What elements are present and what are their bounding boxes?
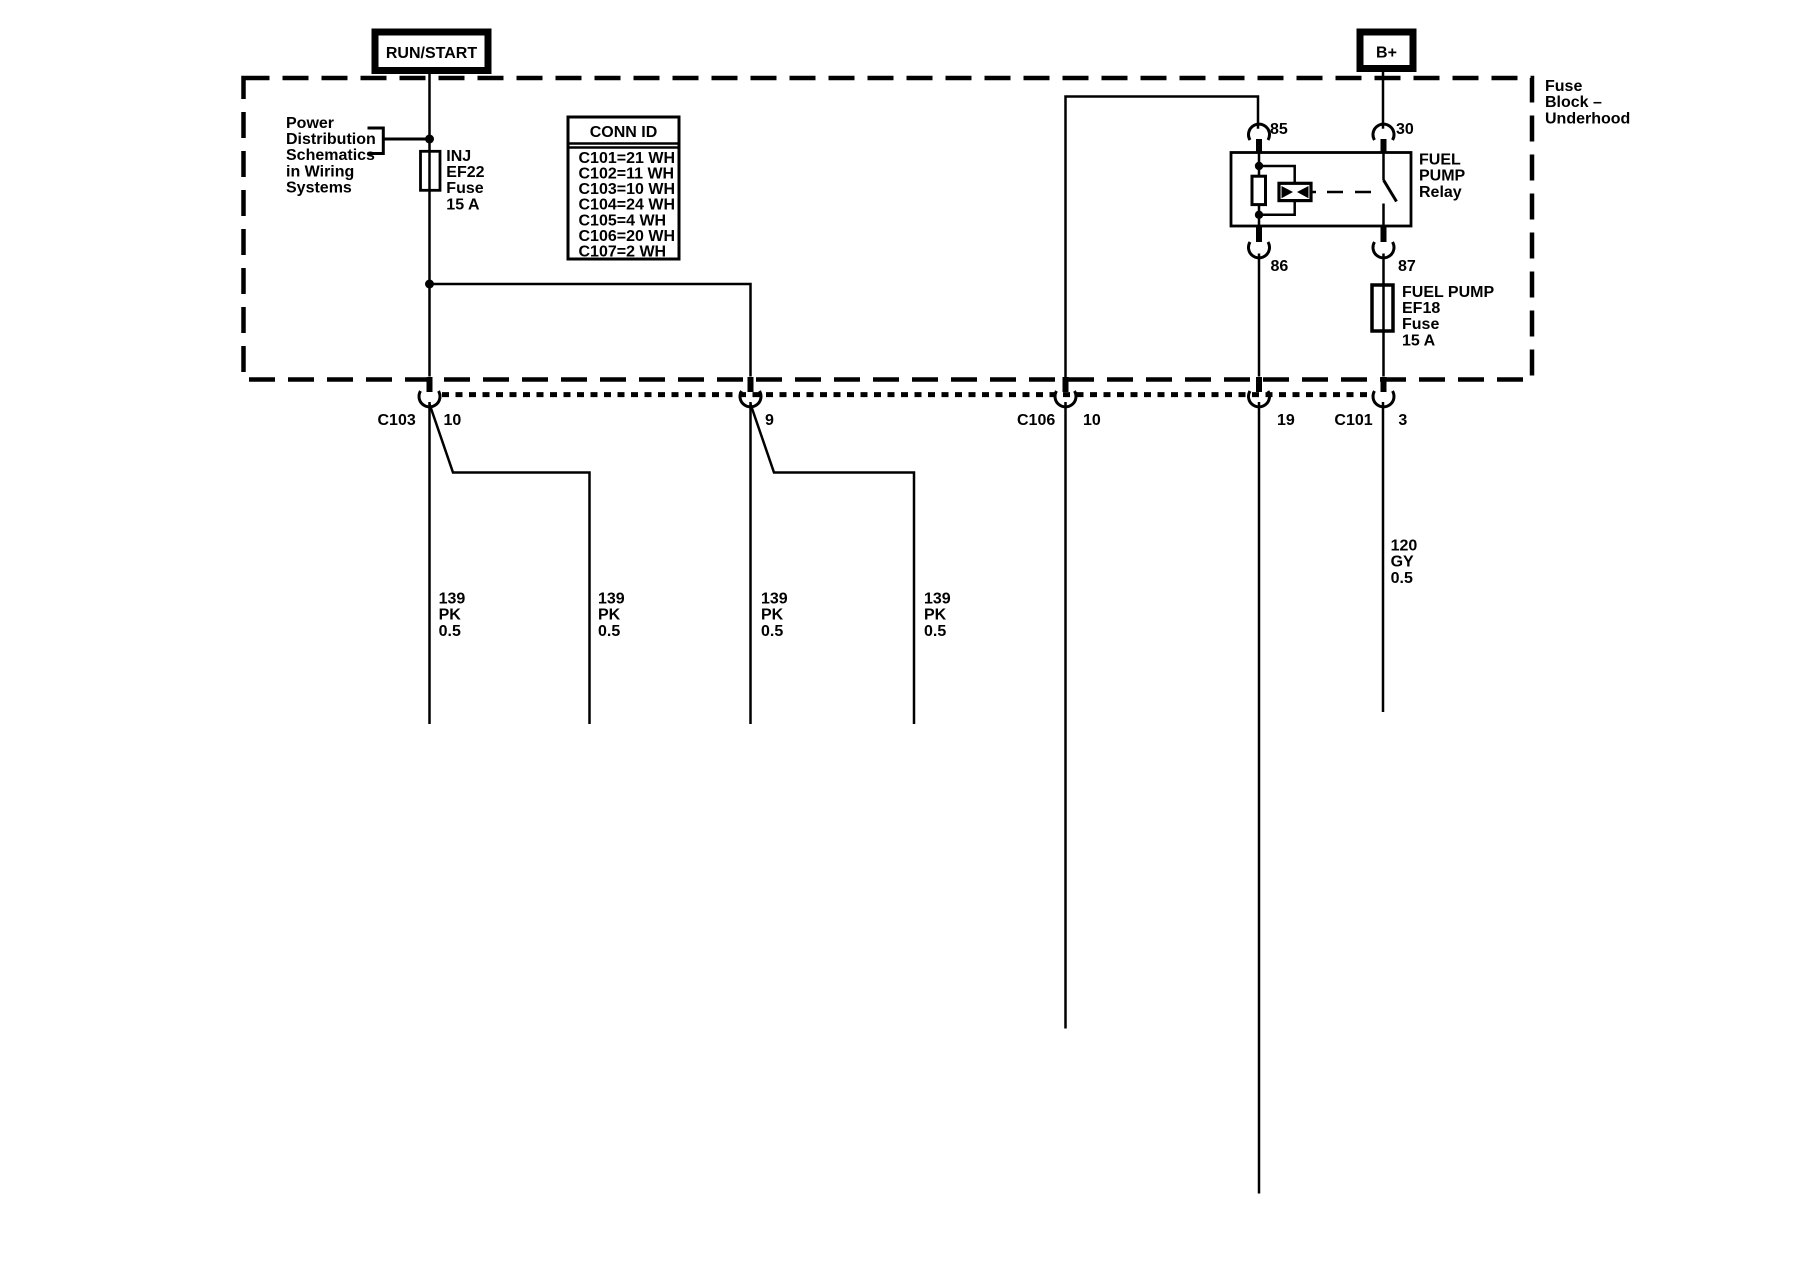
svg-text:Fuse: Fuse	[446, 180, 483, 197]
connector row dotted line	[442, 392, 1371, 397]
svg-text:RUN/START: RUN/START	[386, 45, 477, 62]
relay actuator dashed link	[1311, 191, 1371, 194]
wire pin 9 to injector 3	[749, 402, 752, 724]
coil junction dots	[1255, 162, 1263, 170]
svg-text:C102=11 WH: C102=11 WH	[579, 166, 675, 183]
svg-text:C106: C106	[1017, 412, 1055, 429]
CONN ID table underhood	[568, 117, 679, 261]
pin 86 stub	[1256, 226, 1262, 243]
svg-text:10: 10	[444, 412, 462, 429]
fuse block underhood dashed box	[244, 78, 1533, 380]
svg-text:87: 87	[1398, 258, 1416, 275]
relay winding X-box	[1279, 183, 1311, 200]
label FUEL PUMP EF18 Fuse 15 A	[1402, 284, 1494, 350]
svg-text:C103=10 WH: C103=10 WH	[579, 181, 676, 198]
svg-text:139: 139	[439, 591, 466, 608]
reference bracket to power distribution	[368, 127, 430, 156]
svg-text:C107=2 WH: C107=2 WH	[579, 244, 667, 261]
svg-text:10: 10	[1083, 412, 1101, 429]
relay coil resistor	[1252, 176, 1266, 204]
wire C106-10 up and over to relay pin 85	[1066, 97, 1259, 392]
wire C101-3 to fuel pump	[1382, 402, 1385, 712]
connector C103 pin 10	[378, 377, 462, 429]
coil loop wire	[1259, 166, 1295, 215]
svg-text:Schematics: Schematics	[286, 147, 375, 164]
junction dot branch	[425, 280, 434, 289]
svg-text:Underhood: Underhood	[1545, 110, 1630, 127]
wire pin 86 to connector 19	[1258, 254, 1261, 377]
pin 30 arc	[1373, 124, 1394, 140]
svg-text:0.5: 0.5	[761, 623, 783, 640]
power node RUN/START	[375, 32, 488, 71]
power node B+	[1360, 32, 1413, 69]
svg-text:C104=24 WH: C104=24 WH	[579, 197, 676, 214]
svg-text:120: 120	[1391, 537, 1418, 554]
pin 86 arc	[1249, 242, 1270, 258]
svg-text:Relay: Relay	[1419, 184, 1462, 201]
svg-text:PK: PK	[761, 607, 784, 624]
svg-text:139: 139	[598, 591, 625, 608]
svg-text:30: 30	[1396, 121, 1414, 138]
wire label 120 GY 0.5	[1391, 537, 1418, 586]
fuse INJ EF22 15A	[421, 151, 441, 190]
svg-text:C101: C101	[1334, 412, 1372, 429]
wire branch to pin 9	[430, 284, 751, 377]
svg-text:19: 19	[1277, 412, 1295, 429]
svg-text:15 A: 15 A	[446, 196, 480, 213]
fuse FUEL PUMP EF18 15A	[1372, 285, 1393, 331]
svg-text:B+: B+	[1376, 45, 1397, 62]
svg-text:C103: C103	[378, 412, 416, 429]
pin 30 stub	[1381, 139, 1387, 153]
connector C106 pin 10	[1017, 377, 1101, 429]
svg-text:FUEL: FUEL	[1419, 152, 1461, 169]
wire label 139 PK 0.5 injector 2	[598, 591, 625, 640]
svg-text:85: 85	[1270, 121, 1288, 138]
connector C101 pin 3	[1334, 377, 1407, 429]
svg-text:0.5: 0.5	[924, 623, 946, 640]
connector pin 9	[740, 377, 774, 429]
junction dot at fuse feed	[425, 135, 434, 144]
label INJ EF22 Fuse 15 A	[446, 148, 484, 214]
wire label 139 PK 0.5 injector 3	[761, 591, 788, 640]
wire label 139 PK 0.5 injector 4	[924, 591, 951, 640]
wire RUN/START down to C103	[428, 70, 431, 377]
svg-text:0.5: 0.5	[439, 623, 461, 640]
svg-text:PK: PK	[439, 607, 462, 624]
wire C103 to injector 1	[428, 402, 431, 724]
svg-text:0.5: 0.5	[1391, 570, 1413, 587]
svg-text:9: 9	[765, 412, 774, 429]
svg-text:PK: PK	[598, 607, 621, 624]
svg-text:PK: PK	[924, 607, 947, 624]
svg-text:139: 139	[761, 591, 788, 608]
svg-text:CONN ID: CONN ID	[590, 124, 658, 141]
relay coil wire	[1258, 153, 1261, 227]
wire branch to injector 2	[430, 404, 590, 724]
wire label 139 PK 0.5 injector 1	[439, 591, 466, 640]
fuel pump relay U	[1231, 121, 1466, 275]
wire 19 to G107	[1258, 402, 1261, 1194]
svg-text:C106=20 WH: C106=20 WH	[579, 228, 676, 245]
svg-text:Distribution: Distribution	[286, 131, 376, 148]
wire C106 to C42	[1064, 402, 1067, 1029]
pin 87 stub	[1381, 226, 1387, 243]
svg-text:in Wiring: in Wiring	[286, 163, 354, 180]
relay switch	[1382, 153, 1385, 181]
svg-text:15 A: 15 A	[1402, 332, 1436, 349]
wire B+ down to relay pin 30	[1382, 68, 1385, 129]
svg-text:FUEL PUMP: FUEL PUMP	[1402, 284, 1494, 301]
wire branch to injector 4	[751, 404, 915, 724]
svg-text:C105=4 WH: C105=4 WH	[579, 212, 667, 229]
pin 85 arc	[1249, 124, 1270, 140]
connector pin 19	[1249, 377, 1295, 429]
svg-text:Power: Power	[286, 115, 334, 132]
svg-text:Fuse: Fuse	[1545, 78, 1582, 95]
svg-text:Block –: Block –	[1545, 94, 1602, 111]
svg-text:GY: GY	[1391, 554, 1414, 571]
svg-text:0.5: 0.5	[598, 623, 620, 640]
svg-text:139: 139	[924, 591, 951, 608]
svg-text:C101=21 WH: C101=21 WH	[579, 150, 676, 167]
svg-text:EF18: EF18	[1402, 300, 1440, 317]
svg-text:3: 3	[1398, 412, 1407, 429]
svg-text:Fuse: Fuse	[1402, 316, 1439, 333]
svg-text:86: 86	[1271, 258, 1289, 275]
pin 87 arc	[1373, 242, 1394, 258]
svg-text:Systems: Systems	[286, 180, 352, 197]
pin 85 stub	[1256, 139, 1262, 153]
svg-text:INJ: INJ	[446, 148, 471, 165]
label Power Distribution Schematics in Wiring Systems	[286, 115, 376, 197]
wire pin 87 to fuse EF18 to C101	[1382, 254, 1385, 377]
svg-text:EF22: EF22	[446, 164, 484, 181]
label Fuse Block Underhood	[1545, 78, 1630, 127]
svg-text:PUMP: PUMP	[1419, 168, 1466, 185]
